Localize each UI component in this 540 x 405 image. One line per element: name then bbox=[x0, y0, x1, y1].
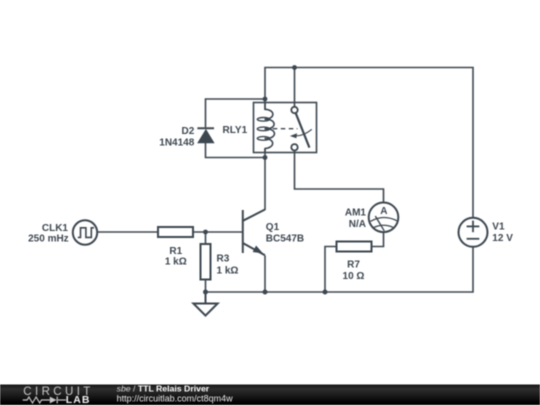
svg-text:Q1: Q1 bbox=[266, 222, 280, 233]
svg-text:10 Ω: 10 Ω bbox=[343, 271, 365, 282]
svg-text:R1: R1 bbox=[169, 246, 182, 257]
svg-text:V1: V1 bbox=[492, 221, 505, 232]
svg-text:BC547B: BC547B bbox=[266, 233, 304, 244]
svg-text:LAB: LAB bbox=[66, 394, 91, 405]
svg-text:1N4148: 1N4148 bbox=[159, 137, 194, 148]
svg-text:1 kΩ: 1 kΩ bbox=[217, 265, 239, 276]
svg-text:AM1: AM1 bbox=[345, 208, 367, 219]
svg-text:CLK1: CLK1 bbox=[42, 223, 69, 234]
svg-text:12 V: 12 V bbox=[492, 233, 513, 244]
svg-text:R7: R7 bbox=[347, 259, 360, 270]
svg-text:http://circuitlab.com/ct8qm4w: http://circuitlab.com/ct8qm4w bbox=[117, 393, 234, 403]
svg-text:RLY1: RLY1 bbox=[223, 125, 248, 136]
svg-text:N/A: N/A bbox=[349, 219, 366, 230]
svg-text:sbe / TTL Relais Driver: sbe / TTL Relais Driver bbox=[117, 384, 210, 394]
svg-text:250 mHz: 250 mHz bbox=[28, 234, 69, 245]
svg-text:D2: D2 bbox=[182, 126, 195, 137]
svg-text:R3: R3 bbox=[217, 254, 230, 265]
svg-text:A: A bbox=[380, 206, 387, 217]
svg-text:1 kΩ: 1 kΩ bbox=[165, 257, 187, 268]
